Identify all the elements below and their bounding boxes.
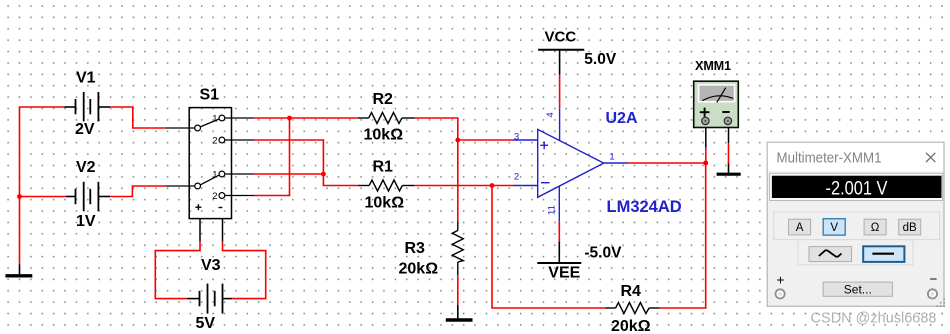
ground left [5, 265, 32, 276]
svg-text:-2.001 V: -2.001 V [826, 178, 888, 200]
junction node B [321, 172, 326, 177]
junction left rail [17, 194, 22, 199]
svg-text:Multimeter-XMM1: Multimeter-XMM1 [777, 151, 882, 167]
wire meter minus [728, 128, 730, 164]
battery V3 [187, 284, 232, 314]
svg-text:V2: V2 [76, 159, 96, 176]
button Ohm [864, 219, 886, 235]
wire R3 to ground [457, 275, 459, 305]
multimeter panel window [767, 142, 944, 306]
svg-text:XMM1: XMM1 [695, 59, 731, 73]
close button [926, 153, 935, 162]
junction pin2 node [490, 183, 495, 188]
svg-text:5V: 5V [196, 315, 216, 332]
ground under meter [717, 164, 741, 175]
svg-text:dB: dB [903, 222, 917, 234]
resistor R2 [358, 113, 415, 124]
svg-text:A: A [796, 222, 804, 234]
svg-text:−: − [930, 272, 938, 287]
svg-text:R2: R2 [373, 91, 394, 108]
svg-text:1: 1 [609, 152, 614, 163]
svg-text:-5.0V: -5.0V [584, 245, 622, 262]
plus terminal [776, 289, 785, 298]
svg-text:R1: R1 [373, 159, 394, 176]
button V selected [823, 219, 845, 235]
wire V2 to S1 [110, 186, 166, 197]
svg-text:1: 1 [212, 113, 217, 124]
svg-text:1: 1 [212, 169, 217, 180]
button AC [809, 247, 852, 262]
button A [789, 219, 811, 235]
wire S1 to V3 loop [155, 242, 265, 299]
svg-text:3: 3 [514, 132, 519, 143]
svg-text:V1: V1 [76, 70, 96, 87]
battery V2 [66, 182, 110, 211]
junction output node [703, 161, 708, 166]
wire feedback to R4 [492, 186, 605, 309]
resistor R1 [359, 180, 415, 191]
wire V2 left to ground rail [20, 196, 67, 198]
svg-text:2: 2 [212, 135, 217, 146]
wire R2 to noninverting node [415, 118, 514, 221]
svg-text:V3: V3 [201, 257, 221, 274]
svg-text:2: 2 [212, 191, 217, 202]
group box waveform [798, 240, 913, 265]
ground under R3 [446, 305, 473, 320]
wire node A: S1 sw1 pin1 and sw2 pin2 to R2 [254, 118, 358, 196]
svg-text:S1: S1 [200, 87, 220, 104]
svg-text:4: 4 [545, 112, 556, 117]
display frame [770, 173, 943, 200]
battery V1 [64, 92, 110, 121]
resize grip [936, 298, 945, 307]
wire V1 left to ground rail [20, 107, 65, 265]
svg-text:1V: 1V [76, 213, 96, 230]
resistor R3 [452, 221, 463, 275]
svg-text:R3: R3 [405, 240, 426, 257]
svg-text:V: V [830, 222, 838, 234]
wire meter plus [705, 128, 707, 163]
op-amp U2A [514, 108, 629, 221]
VCC power symbol [538, 50, 584, 75]
svg-text:11: 11 [547, 205, 558, 215]
svg-text:U2A: U2A [606, 110, 638, 127]
junction node A [287, 116, 292, 121]
svg-text:+: + [777, 273, 785, 288]
resistor R4 [605, 303, 659, 314]
title bar [768, 143, 943, 172]
svg-text:20kΩ: 20kΩ [611, 318, 651, 334]
svg-text:2V: 2V [75, 121, 95, 138]
button Set [823, 282, 892, 296]
svg-text:LM324AD: LM324AD [607, 198, 682, 216]
svg-text:20kΩ: 20kΩ [399, 261, 439, 278]
button DC selected [863, 246, 904, 262]
wire VCC to pin4 [559, 75, 561, 109]
group box modes [774, 212, 940, 240]
PANEL [767, 142, 945, 307]
wire node B: S1 sw1 pin2 and sw2 pin1 to R1 [254, 140, 359, 186]
switch S1 [166, 108, 254, 242]
wire R1 to inverting node [414, 185, 514, 187]
svg-text:Set...: Set... [844, 282, 872, 296]
multimeter XMM1 icon [694, 81, 739, 127]
svg-text:10kΩ: 10kΩ [365, 195, 405, 212]
wire output to meter junction [628, 162, 706, 164]
wire V1 to S1 [110, 107, 166, 128]
svg-text:VEE: VEE [548, 265, 580, 282]
svg-text:2: 2 [514, 172, 519, 183]
wire pin11 to VEE [558, 221, 560, 242]
wire R4 to output node [660, 163, 706, 308]
svg-text:10kΩ: 10kΩ [364, 127, 404, 144]
svg-text:Ω: Ω [871, 222, 880, 234]
junction pin3 node [455, 138, 460, 143]
display [772, 176, 942, 198]
VEE power symbol [537, 242, 581, 263]
svg-text:VCC: VCC [545, 29, 577, 46]
svg-text:5.0V: 5.0V [584, 51, 617, 68]
svg-text:R4: R4 [621, 283, 642, 300]
svg-text:CSDN @zhusl6688: CSDN @zhusl6688 [811, 311, 937, 327]
minus terminal [928, 289, 937, 298]
button dB [899, 219, 921, 235]
